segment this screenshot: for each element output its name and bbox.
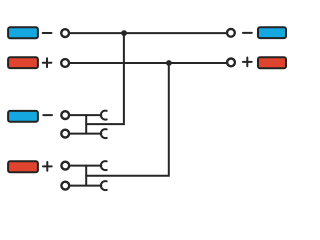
plus polarity label (lower red group) — [43, 162, 52, 171]
junction dot row 1 — [121, 30, 127, 36]
plus polarity label (row 2 left) — [43, 58, 52, 67]
spring clamp contact (blue group upper) — [101, 111, 107, 120]
spring clamp contact (red group upper) — [101, 161, 107, 170]
spring clamp contact (blue group lower) — [101, 129, 107, 138]
terminal marker blue X2 (row 1 right) — [258, 27, 286, 38]
spring clamp contact (red group lower) — [101, 181, 107, 190]
plus polarity label (row 2 right) — [243, 58, 252, 67]
jumper bar (red group) — [85, 166, 87, 186]
terminal marker blue X5 (lower blue group) — [8, 111, 38, 122]
push-in terminal circle (red group upper) — [61, 162, 69, 170]
wire vertical from row 2 junction down to node B — [86, 63, 169, 176]
wire from lower red terminal to jumper bar and clamp — [70, 185, 101, 187]
push-in terminal circle (blue group upper) — [61, 111, 69, 119]
terminal marker red X6 (lower red group) — [8, 161, 38, 172]
junction dot row 2 — [166, 60, 172, 66]
wire from lower blue terminal to jumper bar and clamp — [70, 133, 101, 135]
push-in terminal circle (row 1 left) — [61, 29, 69, 37]
wire row 2 (plus bus) — [70, 62, 227, 64]
terminal marker red X3 (row 2 left) — [8, 57, 38, 68]
wire row 1 (minus bus) — [70, 32, 226, 34]
push-in terminal circle (row 1 right) — [227, 29, 235, 37]
minus polarity label (lower blue group) — [43, 114, 52, 116]
minus polarity label (row 1 right) — [243, 32, 252, 34]
terminal marker red X4 (row 2 right) — [258, 57, 286, 68]
wire vertical from row 1 junction down to node A — [86, 33, 124, 124]
push-in terminal circle (row 2 right) — [227, 59, 235, 67]
jumper bar (blue group) — [85, 115, 87, 134]
terminal marker blue X1 (row 1 left) — [8, 27, 38, 38]
wire from upper blue terminal to jumper bar and clamp — [70, 114, 101, 116]
wire from upper red terminal to jumper bar and clamp — [70, 165, 101, 167]
push-in terminal circle (row 2 left) — [61, 59, 69, 67]
push-in terminal circle (red group lower) — [61, 182, 69, 190]
push-in terminal circle (blue group lower) — [61, 130, 69, 138]
minus polarity label (row 1 left) — [43, 32, 52, 34]
